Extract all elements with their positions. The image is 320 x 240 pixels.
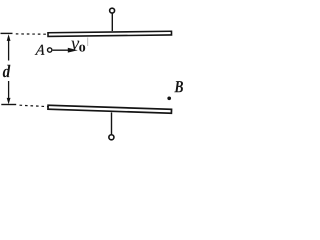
faint scan smudge: [87, 38, 89, 47]
label A: [35, 45, 46, 55]
bottom plate: [48, 105, 172, 113]
label v0: [71, 41, 85, 52]
bottom terminal wire: [111, 112, 113, 134]
bottom terminal circle: [109, 135, 114, 140]
dimension arrow up: [7, 34, 11, 60]
node A circle: [48, 48, 52, 52]
bottom dashed extension line: [1, 105, 47, 107]
dimension arrow down: [7, 81, 11, 104]
top terminal circle: [110, 8, 115, 13]
top plate: [48, 31, 172, 36]
top terminal wire: [111, 14, 113, 32]
velocity arrow v0: [53, 48, 78, 53]
label d: [3, 65, 11, 77]
point B dot: [167, 96, 171, 100]
top dashed extension line: [1, 32, 48, 35]
label B: [174, 81, 183, 92]
